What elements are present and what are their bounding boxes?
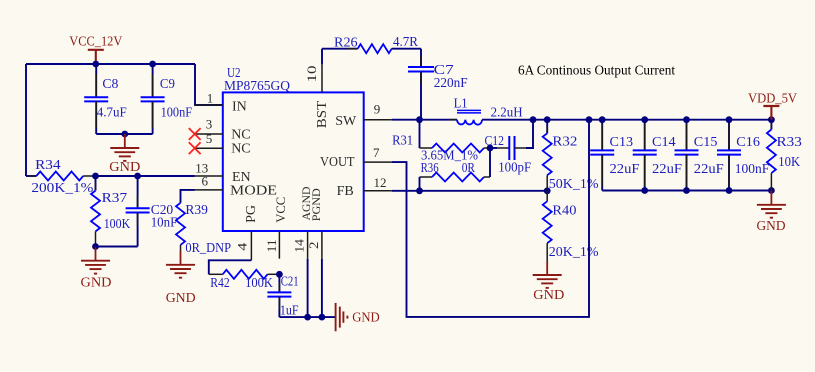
wire pin4 to R42: [209, 260, 252, 274]
pin 11 (VCC): [264, 197, 288, 259]
pin 14 (AGND): [292, 186, 313, 317]
resistor R37: [91, 176, 130, 247]
svg-text:4.7uF: 4.7uF: [97, 106, 127, 121]
svg-text:100nF: 100nF: [161, 106, 193, 121]
pin 13 (EN): [195, 160, 251, 185]
node R31-R36-C12: [487, 145, 494, 152]
node R42-VCCpin-C21: [276, 271, 283, 278]
svg-text:7: 7: [373, 145, 380, 160]
svg-text:GND: GND: [352, 311, 380, 326]
svg-text:4: 4: [234, 242, 249, 251]
resistor R31: [392, 134, 490, 164]
svg-text:C9: C9: [160, 77, 175, 92]
node pin14 bottom: [304, 314, 311, 321]
svg-text:R26: R26: [334, 36, 358, 51]
capacitor C20: [126, 176, 178, 247]
svg-text:MP8765GQ: MP8765GQ: [224, 79, 290, 94]
svg-text:R37: R37: [102, 191, 128, 206]
svg-text:R39: R39: [185, 203, 208, 218]
svg-text:22uF: 22uF: [694, 162, 724, 177]
resistor R40: [543, 191, 599, 261]
wire MODE to R39: [181, 190, 195, 203]
svg-text:2.2uH: 2.2uH: [491, 106, 523, 121]
wire C20 to R37 bottom: [96, 246, 138, 248]
svg-text:C21: C21: [281, 275, 299, 290]
svg-text:GND: GND: [757, 219, 786, 234]
node VCC-C8: [92, 61, 99, 68]
svg-text:100pF: 100pF: [498, 161, 531, 176]
svg-text:C16: C16: [736, 135, 760, 150]
svg-text:12: 12: [374, 175, 387, 190]
node rail-C14: [641, 116, 648, 123]
wire EN line: [96, 175, 195, 177]
svg-text:PGND: PGND: [309, 188, 323, 221]
node rail-C13: [599, 116, 606, 123]
node bottomrail-R33: [768, 187, 775, 194]
resistor R42: [209, 270, 280, 291]
wire SW to L1: [392, 119, 457, 121]
ground at C21 (vertical bars): [336, 303, 380, 331]
svg-text:MODE: MODE: [230, 184, 277, 199]
power flag VCC_12V: [69, 35, 122, 64]
svg-text:C8: C8: [102, 77, 118, 92]
node bottomrail-C14: [641, 187, 648, 194]
wire R36 left down to FB: [419, 177, 421, 191]
capacitor C15: [675, 120, 725, 191]
svg-text:10nF: 10nF: [151, 215, 178, 230]
svg-text:9: 9: [374, 102, 381, 117]
node C8C9-gnd: [121, 131, 128, 138]
svg-text:L1: L1: [454, 97, 468, 112]
wire BST up: [321, 49, 323, 65]
svg-text:R32: R32: [552, 135, 577, 150]
wire to pin1 IN: [195, 64, 223, 105]
capacitor C13: [590, 120, 640, 191]
svg-text:R40: R40: [552, 204, 576, 219]
inductor L1: [449, 97, 523, 125]
wire C21/AGND/PGND bottom: [279, 316, 335, 318]
node R37-C20 bottom: [92, 243, 99, 250]
resistor R32: [543, 120, 599, 192]
node rail-C16: [726, 116, 733, 123]
pin 7 (VOUT): [320, 145, 392, 170]
wire L1 to output rail: [482, 119, 771, 121]
pin 6 (MODE): [195, 173, 278, 198]
capacitor C8: [84, 64, 127, 134]
node FB-divider: [544, 187, 551, 194]
svg-text:100K: 100K: [104, 217, 131, 232]
svg-text:1: 1: [207, 91, 214, 106]
svg-text:C14: C14: [652, 135, 676, 150]
node bottomrail-C15: [683, 187, 690, 194]
svg-text:5: 5: [206, 131, 213, 146]
pin 1 (IN): [195, 91, 247, 115]
svg-text:IN: IN: [232, 100, 247, 115]
pin 9 (SW): [335, 102, 392, 129]
svg-text:2: 2: [306, 242, 321, 250]
pin 10 (BST): [304, 64, 330, 128]
resistor R36: [420, 161, 491, 182]
wire FB line: [392, 190, 548, 192]
ground below R37: [81, 247, 112, 291]
svg-text:3: 3: [206, 116, 213, 131]
wire VCC_12V top rail: [26, 63, 195, 65]
svg-text:22uF: 22uF: [610, 162, 640, 177]
capacitor C12: [485, 120, 534, 176]
svg-text:C12: C12: [485, 134, 505, 149]
node SW-C7-R31: [416, 116, 423, 123]
svg-text:VOUT: VOUT: [320, 155, 355, 170]
svg-text:22uF: 22uF: [652, 162, 682, 177]
svg-text:NC: NC: [231, 127, 250, 142]
svg-text:6: 6: [202, 173, 209, 188]
resistor R33: [767, 120, 802, 191]
capacitor C16: [717, 120, 769, 191]
wire left branch down to R34: [25, 64, 27, 176]
pin 3 (NC) with no-connect X: [189, 116, 251, 142]
text note: [518, 64, 675, 79]
IC U2 MP8765GQ body: [223, 66, 364, 231]
node EN-C20: [134, 173, 141, 180]
capacitor C9: [141, 64, 193, 134]
resistor R34: [26, 158, 96, 196]
node rail-R32: [544, 116, 551, 123]
svg-text:GND: GND: [109, 160, 140, 175]
node rail-C15: [683, 116, 690, 123]
svg-text:100nF: 100nF: [735, 162, 770, 177]
svg-text:GND: GND: [533, 288, 564, 303]
svg-text:R36: R36: [421, 161, 439, 176]
svg-text:R33: R33: [777, 135, 802, 150]
svg-text:100K: 100K: [245, 276, 273, 291]
svg-text:PG: PG: [244, 205, 259, 223]
svg-text:20K_1%: 20K_1%: [549, 245, 599, 260]
svg-text:VDD_5V: VDD_5V: [748, 92, 797, 107]
svg-text:R31: R31: [392, 134, 413, 149]
resistor R26: [322, 35, 421, 53]
ground below R33: [757, 191, 786, 235]
wire C8-C9 bottoms: [96, 133, 152, 135]
svg-text:BST: BST: [315, 100, 330, 128]
svg-text:4.7R: 4.7R: [393, 35, 419, 50]
svg-text:50K_1%: 50K_1%: [549, 177, 599, 192]
node R34-R37: [92, 173, 99, 180]
pin 5 (NC) with no-connect X: [189, 131, 251, 157]
ground below R39: [166, 251, 196, 307]
node FB-R36: [416, 187, 423, 194]
svg-text:C13: C13: [610, 135, 634, 150]
svg-text:6A Continous Output Current: 6A Continous Output Current: [518, 64, 675, 79]
svg-text:10K: 10K: [778, 155, 800, 170]
power flag VDD_5V: [748, 92, 797, 120]
wire output bottom rail: [602, 190, 771, 192]
svg-text:C15: C15: [694, 135, 718, 150]
svg-text:10: 10: [304, 66, 319, 83]
node VCC-C9: [149, 61, 156, 68]
svg-text:0R: 0R: [462, 161, 476, 176]
wire SW node down to R31: [419, 120, 421, 148]
svg-text:R42: R42: [210, 276, 230, 291]
wire VOUT sense loop: [392, 120, 589, 317]
svg-text:GND: GND: [81, 276, 112, 291]
capacitor C21: [267, 274, 298, 318]
svg-text:0R_DNP: 0R_DNP: [185, 241, 231, 256]
node C12-rail: [530, 116, 537, 123]
svg-text:GND: GND: [166, 291, 196, 306]
svg-text:200K_1%: 200K_1%: [31, 181, 93, 196]
node loop-rail: [586, 116, 593, 123]
node pin2 bottom: [319, 314, 326, 321]
ground below C8/C9: [109, 134, 140, 175]
pin 4 (PG): [234, 205, 259, 260]
svg-text:NC: NC: [231, 142, 250, 157]
pin 12 (FB): [337, 175, 392, 199]
svg-text:VCC_12V: VCC_12V: [69, 35, 122, 50]
svg-text:FB: FB: [337, 184, 354, 199]
ground below R40: [533, 261, 565, 303]
svg-text:R34: R34: [35, 158, 61, 173]
svg-text:11: 11: [264, 239, 279, 252]
svg-text:220nF: 220nF: [434, 76, 468, 91]
resistor R39 (0R_DNP): [176, 203, 231, 256]
svg-text:VCC: VCC: [273, 197, 288, 223]
wire R36 right up to C12 node: [489, 148, 491, 177]
node rail-R33: [768, 116, 775, 123]
capacitor C7: [408, 49, 468, 120]
pin 2 (PGND): [306, 188, 323, 317]
svg-text:SW: SW: [335, 114, 357, 129]
capacitor C14: [633, 120, 683, 191]
svg-text:14: 14: [292, 239, 307, 253]
node bottomrail-C16: [726, 187, 733, 194]
